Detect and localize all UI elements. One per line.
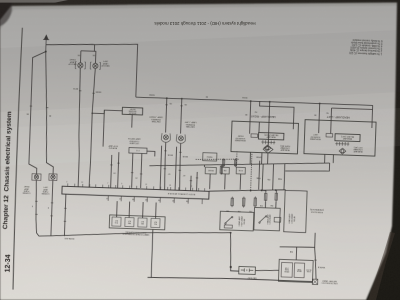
wire splice down xyxy=(267,153,269,164)
relay cell 1 xyxy=(112,217,121,226)
box center module a xyxy=(205,167,216,174)
connector tick liftgate b xyxy=(140,173,142,175)
label BK right license wire xyxy=(48,114,51,116)
wire DRL left return xyxy=(179,143,181,190)
node DRL left branch xyxy=(181,98,183,100)
box battery xyxy=(239,266,256,274)
wire F5 to relay xyxy=(275,202,277,208)
pins below BCM with stubs xyxy=(108,196,202,204)
label LICENSE PLATE LAMP LEFT xyxy=(41,186,50,195)
splice diamond S402 xyxy=(263,145,273,153)
connector tick backup left return xyxy=(92,92,94,94)
lamp daytime running right xyxy=(163,135,168,140)
connector tick DRL left xyxy=(180,105,182,107)
relay contact high-beam xyxy=(224,216,233,228)
label BODY CONTROL MODULE xyxy=(167,192,195,195)
connector tick extra b xyxy=(196,177,198,179)
wire license right return xyxy=(34,180,52,236)
node headlamp right feed xyxy=(250,100,252,102)
label LICENSE PLATE LAMP RIGHT xyxy=(22,185,31,194)
label fuse F4 xyxy=(259,204,263,207)
connector tick DRL left return xyxy=(179,151,181,153)
wire ground to left license feed xyxy=(29,51,46,174)
connector tick DRL right xyxy=(165,104,167,106)
fuse center a xyxy=(222,158,225,167)
box liftgate switch xyxy=(129,148,147,154)
lamp backup left xyxy=(93,63,98,68)
label TH module xyxy=(207,155,213,157)
label center module a xyxy=(208,169,214,171)
wire F4 to relay xyxy=(264,202,266,208)
connector shell DRL right xyxy=(161,133,170,142)
label stop lamp wires xyxy=(113,171,116,173)
label B license right xyxy=(32,205,33,207)
wire stop lamp feed b xyxy=(118,152,119,187)
connector box license left xyxy=(49,174,57,181)
connector box license right xyxy=(32,174,41,181)
fuse F1 xyxy=(231,197,234,208)
label fuse F2 xyxy=(237,210,241,213)
label JUNCTION BLOCK BATTERY CABLE xyxy=(321,279,338,284)
label inside liftgate box xyxy=(136,149,140,151)
solenoid element left xyxy=(326,133,333,137)
box headlamp ballast right xyxy=(258,132,284,139)
box center module c xyxy=(236,167,245,174)
lamp license plate left xyxy=(51,175,56,180)
label FUSE BLOCK UNDERHOOD xyxy=(310,208,324,213)
label BK backup left xyxy=(92,54,95,56)
connector tick backup right return xyxy=(79,90,81,92)
wire DRL right lamp drop xyxy=(166,98,167,132)
wire mid bus corner down xyxy=(203,165,205,167)
node splice branch xyxy=(269,101,271,103)
solenoid element right xyxy=(251,134,258,138)
wire DRL left lamp drop xyxy=(181,99,182,134)
wire license left return xyxy=(51,180,53,235)
label B license left xyxy=(48,206,49,208)
label BACKUP LAMP RIGHT xyxy=(68,58,77,66)
node ground bus to battery drop xyxy=(230,232,232,234)
label WH/BK A xyxy=(317,266,325,269)
wire left headlamp feed stub b xyxy=(332,108,373,109)
node fuse bus b xyxy=(261,189,263,191)
wire to battery box xyxy=(231,267,239,271)
wire DRL right return xyxy=(164,142,166,190)
label center module c xyxy=(238,169,243,172)
label 30A pin xyxy=(289,250,293,253)
label fuse F3 xyxy=(248,210,252,213)
wire interior stub right b xyxy=(258,122,260,132)
label wire code bus1 c xyxy=(241,96,247,98)
box headlamp ballast left xyxy=(335,134,360,142)
connector tick stop b xyxy=(117,162,119,164)
wire DRL right return second xyxy=(160,146,162,190)
fuse F4 xyxy=(264,192,267,202)
label HEADLAMP BALLAST RIGHT xyxy=(264,133,279,139)
wire BCM to SPDJB cell4 xyxy=(155,203,158,219)
node module junction xyxy=(91,112,93,114)
box headlamp low-beam relay xyxy=(254,207,280,230)
connector backup right xyxy=(75,62,85,69)
connector backup left xyxy=(90,62,100,69)
pin labels below BCM xyxy=(106,198,189,203)
wire mid return bus xyxy=(149,157,329,172)
relay cell 4 xyxy=(151,218,160,227)
connector tick right license wire xyxy=(46,107,48,109)
wire fuse bus drop to F5 xyxy=(275,190,278,192)
ground symbol G401 xyxy=(43,35,50,52)
relay cell 3 xyxy=(138,218,147,227)
wire left headlamp return a xyxy=(324,154,326,163)
pins above BCM xyxy=(68,183,205,191)
node at ground junction xyxy=(45,51,47,53)
wire module lead down xyxy=(131,115,133,128)
wire right headlamp return a xyxy=(249,152,251,164)
wire DRL main bus xyxy=(136,97,373,105)
connector tick DRL right return xyxy=(164,150,166,152)
wire fuse block right down xyxy=(314,247,318,279)
label 4005 wire xyxy=(64,237,74,239)
label GY liftgate xyxy=(134,176,137,178)
wire BCM left return xyxy=(64,194,65,236)
label BK left headlamp xyxy=(313,113,316,115)
label HEADLAMP - RIGHT xyxy=(250,114,275,119)
box headlamp high-beam relay xyxy=(220,211,254,231)
box center module b xyxy=(221,167,229,174)
label HIGH-BEAM SOLENOID RIGHT xyxy=(235,134,246,142)
wire left headlamp feed corner xyxy=(371,105,374,122)
wire BCM to SPDJB cell2 xyxy=(128,202,131,218)
wire DRL left return second xyxy=(175,147,177,191)
lamp daytime running left xyxy=(178,136,183,141)
wire fuse block bottom edge xyxy=(280,232,316,248)
box small TH module xyxy=(203,153,217,161)
box junction block with X xyxy=(312,279,318,284)
connector tick license left return a xyxy=(51,202,53,204)
wire bottom ground bus xyxy=(148,276,313,284)
wire stop lamp feed a xyxy=(111,155,112,188)
wire headlamp right feed drop xyxy=(249,101,252,122)
connector tick license right return a xyxy=(35,200,37,202)
label wire code riser c xyxy=(278,177,282,179)
wire backup right lamp return xyxy=(76,68,82,187)
connector tick BCM left return b xyxy=(64,220,66,222)
label HEADLAMP LOW-BEAM RIGHT HID xyxy=(279,144,290,151)
sidebar rule (page divider line) xyxy=(12,28,22,290)
wire center drop c xyxy=(239,174,242,190)
connector tick left license wire xyxy=(30,105,32,107)
lamp backup right xyxy=(78,63,83,68)
wire interior stub right c xyxy=(292,123,294,129)
wire center drop a xyxy=(209,174,212,189)
pins ballast left xyxy=(335,142,349,146)
label HEADLAMP - LEFT xyxy=(326,115,349,120)
mega fuse cell b xyxy=(294,263,304,278)
label GY DRL left low xyxy=(182,174,185,176)
wire ground node to backup lamp feed xyxy=(46,43,95,51)
wire center drop e xyxy=(267,163,269,165)
wire backup lamp branch split xyxy=(80,51,95,63)
wire backup left lamp return xyxy=(89,68,95,187)
box headlamp left assembly xyxy=(304,120,376,156)
box fuse block battery side xyxy=(278,259,313,282)
label RD DRL left xyxy=(184,103,187,105)
wire backup right lamp drop xyxy=(79,51,81,63)
legend list of circuit destinations (upside down) xyxy=(349,38,382,56)
box SPDJB outer xyxy=(109,215,165,230)
connector tick license right return b xyxy=(35,213,37,215)
label DAYTIME RUNNING LAMP LEFT xyxy=(183,120,196,128)
wire battery to fuse block battery side xyxy=(255,270,279,272)
label HEADLAMP BALLAST LEFT xyxy=(340,135,354,140)
label wire code bus1 a xyxy=(148,93,154,95)
label BATTERY xyxy=(247,276,257,279)
wire left headlamp return b xyxy=(332,155,334,163)
wire 30A pin to battery side box xyxy=(295,247,297,260)
wire extra drop b xyxy=(196,172,199,191)
lamp license plate right xyxy=(34,175,39,180)
label center module b xyxy=(223,169,227,172)
wire interior stub left b xyxy=(330,121,332,134)
label RD DRL right xyxy=(169,102,172,104)
connector tick liftgate a xyxy=(131,172,133,174)
label HID BULB LEFT xyxy=(352,146,362,153)
wire SPDJB down to ground bus xyxy=(151,229,153,277)
label BK/GN DRL left xyxy=(182,155,188,157)
connector tick BCM left return a xyxy=(64,207,66,209)
wire liftgate right lead xyxy=(147,151,155,156)
label BK backup right xyxy=(77,54,80,56)
label keyless entry module xyxy=(128,107,137,113)
wire right headlamp return b xyxy=(261,153,263,164)
label wire code riser a xyxy=(256,176,261,179)
wire liftgate drop a xyxy=(132,153,133,188)
mega fuse cell a xyxy=(281,262,292,277)
label BK/GN DRL right xyxy=(167,153,173,155)
label BK left license wire xyxy=(26,112,29,114)
fuse center b xyxy=(234,158,237,167)
label HIGH MOUNTED STOP LAMP xyxy=(107,144,118,148)
wire interior stub left a xyxy=(318,120,320,133)
wire center drop b xyxy=(224,174,227,189)
node fuse bus c xyxy=(275,189,277,191)
wire center riser b xyxy=(272,164,275,190)
dashed wire center b xyxy=(251,154,252,190)
label TO/FUSE near splice xyxy=(255,155,261,157)
label BK/WH xyxy=(95,90,101,92)
wire BCM to SPDJB cell3 xyxy=(142,202,145,218)
wire feed to DRL bus xyxy=(93,43,138,97)
label BACKUP LAMP LEFT xyxy=(101,59,110,67)
label liftgate switch block xyxy=(127,137,140,145)
wire ground bus lower xyxy=(51,226,231,242)
label GY DRL right low xyxy=(167,172,170,174)
wire bus BCM to fuse block xyxy=(209,187,286,194)
wire ground down to right license feed xyxy=(41,52,57,174)
label RD feed right headlamp xyxy=(254,110,257,112)
connector tick DRL right return low xyxy=(164,168,166,170)
wire center riser c xyxy=(283,164,286,190)
label HEADLAMP LOW-BEAM RELAY inner xyxy=(266,214,272,225)
fuse F3 xyxy=(254,196,257,207)
battery symbol xyxy=(241,268,254,272)
wire headlamp right second feed xyxy=(259,101,294,123)
label fuse F5 xyxy=(270,204,274,207)
label wire code bus1 b xyxy=(205,95,208,97)
node DRL right branch xyxy=(166,97,168,99)
dashed wire center horizontal xyxy=(196,158,240,161)
label RD left headlamp xyxy=(325,111,328,113)
relay cell 2 xyxy=(125,217,134,226)
wire extra drop a xyxy=(190,176,193,191)
label DAYTIME RUNNING LAMP RIGHT xyxy=(148,115,162,123)
wire interior stub left c xyxy=(371,122,373,128)
fuse F2 xyxy=(242,197,245,208)
wire module to backup return junction xyxy=(103,110,122,147)
wire left headlamp feed stub a xyxy=(318,104,321,121)
node fuse bus a xyxy=(250,190,252,192)
wire center drop d xyxy=(259,161,260,190)
box headlamp right assembly xyxy=(231,121,299,154)
fuse right of TH xyxy=(220,165,223,175)
connector tick license left return b xyxy=(50,215,52,217)
wire bus to splice xyxy=(268,102,270,146)
label SPDJB xyxy=(122,230,150,236)
connector tick DRL left return low xyxy=(179,169,181,171)
label HEADLAMP HIGH-BEAM RELAY xyxy=(238,215,246,226)
pin number labels above BCM xyxy=(66,181,192,187)
wire fuse bus drop to F4 xyxy=(262,190,266,191)
fuse F5 xyxy=(275,192,278,202)
bulb HID low-beam right xyxy=(264,145,271,151)
wire liftgate drop b xyxy=(141,153,142,187)
node battery feed xyxy=(230,266,232,268)
label fuse F1 xyxy=(225,209,229,212)
module box keyless entry module xyxy=(122,107,143,115)
relay contact low-beam xyxy=(259,215,281,224)
label BK feed right headlamp xyxy=(244,113,247,115)
label wire code riser b xyxy=(267,178,271,181)
wire interior stub right a xyxy=(249,122,251,134)
wire center riser from mid bus to fuse bus a xyxy=(261,164,264,190)
wire junction to module feed xyxy=(92,110,104,114)
connector tick extra a xyxy=(190,180,192,182)
label BK/YE xyxy=(72,87,78,89)
connector tick right down a xyxy=(314,259,316,261)
bulb HID low-beam left xyxy=(339,148,346,154)
wire bus drop to battery xyxy=(229,233,231,267)
label fuse block battery side xyxy=(306,268,311,272)
label HIGH-BEAM SOLENOID LEFT xyxy=(310,133,321,141)
wire BCM to SPDJB cell1 xyxy=(116,201,119,217)
pins ballast right xyxy=(261,140,275,144)
connector tick stop a xyxy=(110,164,112,166)
box body control module xyxy=(62,186,209,199)
box fuse block right section xyxy=(284,190,307,232)
connector shell DRL left xyxy=(176,134,185,143)
dashed wire center a xyxy=(235,151,238,167)
label relay right section xyxy=(288,213,296,224)
